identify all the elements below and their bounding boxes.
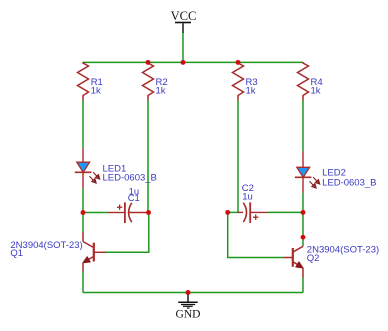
- svg-text:GND: GND: [176, 309, 201, 321]
- svg-text:1k: 1k: [156, 86, 166, 97]
- svg-text:VCC: VCC: [171, 9, 197, 23]
- svg-text:LED-0603_B: LED-0603_B: [322, 177, 376, 188]
- svg-text:1k: 1k: [91, 86, 101, 97]
- svg-text:C1: C1: [128, 193, 140, 204]
- svg-text:Q1: Q1: [10, 248, 23, 259]
- svg-text:1k: 1k: [246, 86, 256, 97]
- svg-text:1k: 1k: [311, 86, 321, 97]
- svg-text:Q2: Q2: [307, 253, 320, 264]
- svg-text:1u: 1u: [242, 191, 253, 202]
- svg-text:LED-0603_B: LED-0603_B: [103, 172, 157, 183]
